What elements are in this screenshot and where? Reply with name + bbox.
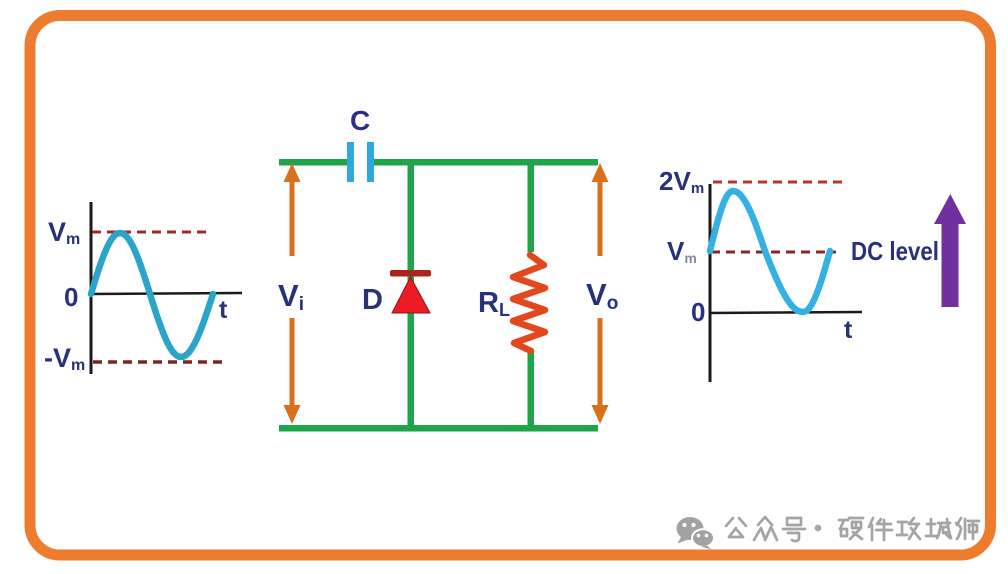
wire: bottom rail: [279, 425, 598, 432]
DC shift arrow (purple, pointing up): [942, 221, 959, 307]
diode D cathode bar: [390, 270, 431, 277]
svg-text:t: t: [844, 316, 853, 344]
svg-text:t: t: [219, 296, 228, 324]
watermark text 公众号·硬件攻城狮: [726, 517, 979, 541]
diode D triangle: [392, 277, 430, 313]
Vo arrow lower (pointing down): [598, 318, 603, 406]
input sine wave Vi: [91, 233, 213, 357]
Vo arrow upper (pointing up): [598, 180, 603, 256]
wire: resistor branch lower: [528, 351, 535, 429]
2Vm dashed level line: [713, 181, 842, 184]
input y-axis: [90, 202, 93, 374]
-Vm dashed level line: [93, 360, 224, 364]
output y-axis: [709, 184, 712, 382]
capacitor gap mask: [354, 158, 367, 167]
input x-axis (t): [89, 293, 242, 294]
resistor RL zigzag: [513, 255, 545, 351]
output x-axis (t): [709, 312, 862, 313]
capacitor C right plate: [367, 142, 374, 182]
Vi arrow upper (pointing up): [290, 180, 295, 256]
svg-text:D: D: [362, 284, 383, 316]
wechat icon big bubble: [677, 517, 704, 544]
wire: resistor branch upper: [528, 162, 535, 252]
wire: top rail: [279, 159, 598, 166]
svg-text:C: C: [350, 105, 370, 136]
svg-text:DC level: DC level: [851, 236, 939, 266]
svg-text:0: 0: [64, 282, 78, 312]
wire: diode branch: [408, 162, 415, 428]
Vm dashed level line: [92, 231, 212, 234]
svg-text:0: 0: [691, 297, 705, 327]
output sine wave Vo: [710, 191, 830, 312]
Vm / DC level dashed line: [711, 251, 836, 254]
wechat icon small bubble: [692, 529, 714, 549]
capacitor C left plate: [347, 142, 354, 182]
Vi arrow lower (pointing down): [290, 318, 295, 406]
